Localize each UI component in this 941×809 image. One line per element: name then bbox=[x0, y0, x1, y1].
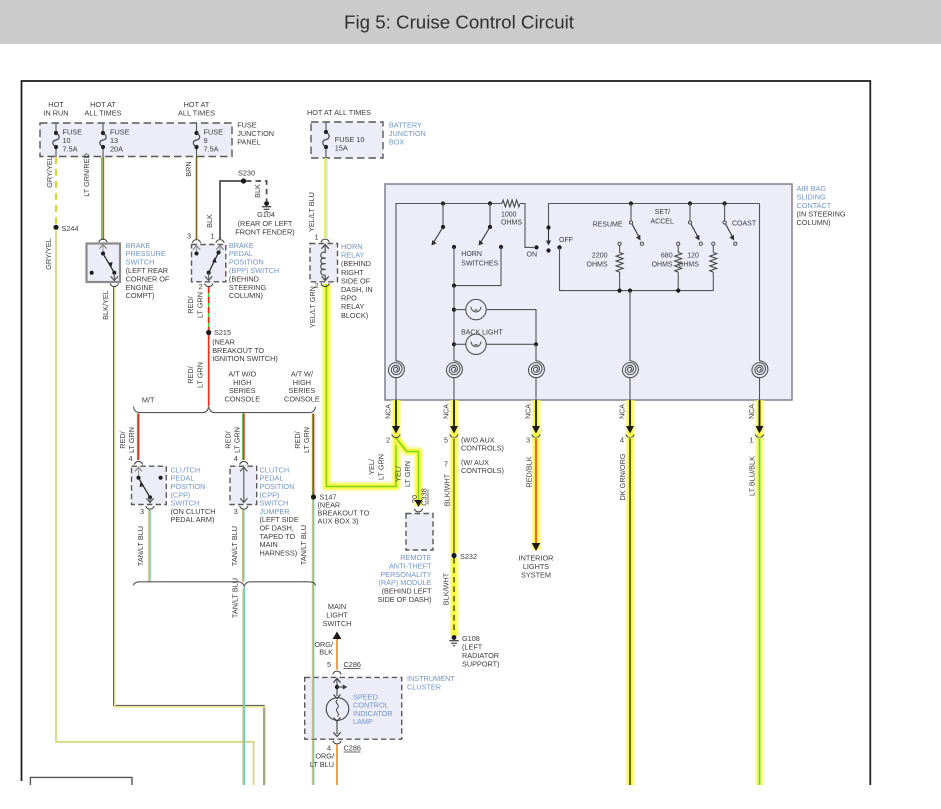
svg-text:TAN/LT BLU: TAN/LT BLU bbox=[299, 525, 308, 565]
svg-text:BRN: BRN bbox=[184, 161, 193, 176]
svg-text:LT GRN: LT GRN bbox=[196, 362, 205, 388]
svg-text:HORN: HORN bbox=[461, 251, 482, 258]
sliding contact coil 1 bbox=[388, 361, 404, 378]
svg-text:C338: C338 bbox=[420, 488, 429, 505]
svg-text:S232: S232 bbox=[460, 552, 477, 561]
svg-text:DK GRN/ORG: DK GRN/ORG bbox=[618, 453, 627, 500]
svg-text:RED/: RED/ bbox=[223, 430, 232, 448]
svg-text:SUPPORT): SUPPORT) bbox=[462, 660, 500, 669]
svg-text:RED/: RED/ bbox=[186, 365, 195, 383]
svg-text:CONSOLE: CONSOLE bbox=[224, 395, 260, 404]
horn switch 1 bbox=[441, 201, 445, 205]
svg-text:M/T: M/T bbox=[142, 396, 155, 405]
horn switch 2 bbox=[488, 201, 492, 205]
svg-text:20A: 20A bbox=[110, 144, 123, 153]
svg-text:1000: 1000 bbox=[501, 212, 517, 219]
svg-text:AUX BOX 3): AUX BOX 3) bbox=[318, 517, 359, 526]
wire TAN/LT BLU from CPP jumper to merge brace bbox=[242, 510, 244, 582]
splice S232 bbox=[451, 553, 456, 558]
splice S147 bbox=[311, 494, 316, 499]
svg-text:4: 4 bbox=[620, 436, 624, 445]
sliding contact coil 3 bbox=[528, 361, 544, 378]
wire BLK dashed from S230 to G104 bbox=[246, 181, 267, 201]
svg-text:TAN/LT BLU: TAN/LT BLU bbox=[136, 526, 145, 566]
wire RED/LT GRN dashed from BPP pin 2 to S215 bbox=[208, 287, 210, 330]
NCA wire at pin 2 bbox=[391, 400, 401, 437]
svg-text:LT GRN: LT GRN bbox=[377, 454, 386, 480]
resistor 2200 OHMS bbox=[618, 242, 621, 245]
wire TAN/LT BLU merged to bottom bbox=[242, 588, 244, 785]
resistor 1000 OHMS bbox=[502, 200, 520, 207]
resistor 680 OHMS bbox=[677, 242, 680, 245]
svg-text:S230: S230 bbox=[238, 169, 255, 178]
svg-text:ALL TIMES: ALL TIMES bbox=[178, 109, 215, 118]
svg-text:OHMS: OHMS bbox=[652, 262, 673, 269]
horn relay coil bbox=[324, 246, 326, 254]
svg-text:LAMP: LAMP bbox=[353, 717, 373, 726]
wire TAN/LT BLU below S147 bbox=[311, 500, 313, 786]
svg-text:OHMS: OHMS bbox=[678, 262, 699, 269]
RAP module box bbox=[406, 514, 433, 551]
svg-text:LT GRN: LT GRN bbox=[127, 427, 136, 453]
svg-text:C286: C286 bbox=[344, 744, 361, 753]
SET/ACCEL switch bbox=[688, 201, 692, 205]
wire GRY/YEL from S244 down and right to bottom bbox=[56, 230, 254, 786]
svg-text:IGNITION SWITCH): IGNITION SWITCH) bbox=[212, 354, 278, 363]
fuse 13 20A bbox=[101, 131, 105, 135]
NCA wire at pin 3 bbox=[531, 400, 541, 437]
svg-text:3: 3 bbox=[187, 232, 191, 241]
brake pressure switch box bbox=[99, 239, 107, 242]
wire LT BLU/BLK from pin 1 to bottom bbox=[755, 438, 765, 786]
svg-text:HARNESS): HARNESS) bbox=[260, 548, 298, 557]
bottom left box bbox=[30, 777, 132, 785]
wire RED/LT GRN from S215 to branch brace bbox=[208, 335, 210, 406]
svg-text:3: 3 bbox=[140, 507, 144, 516]
wire right bus to coil 5 bbox=[759, 204, 761, 362]
ON/OFF switch bbox=[546, 225, 550, 229]
air bag sliding contact box bbox=[385, 184, 792, 400]
svg-text:BLK/WHT: BLK/WHT bbox=[443, 473, 452, 506]
wire RED/LT GRN branch M/T bbox=[136, 414, 138, 461]
svg-text:120: 120 bbox=[687, 253, 699, 260]
svg-text:4: 4 bbox=[128, 454, 132, 463]
svg-text:TAN/LT BLU: TAN/LT BLU bbox=[231, 578, 240, 618]
svg-text:ON: ON bbox=[527, 252, 538, 259]
speed control indicator lamp bbox=[333, 678, 340, 682]
back light lamp 1 bbox=[454, 309, 466, 311]
RESUME switch bbox=[629, 201, 633, 205]
svg-text:2: 2 bbox=[386, 436, 390, 445]
svg-text:SWITCH: SWITCH bbox=[323, 619, 352, 628]
splice S215 bbox=[206, 330, 211, 335]
svg-text:3: 3 bbox=[234, 507, 238, 516]
svg-text:RED/: RED/ bbox=[118, 430, 127, 448]
svg-text:S244: S244 bbox=[62, 224, 79, 233]
svg-text:RED/BLK: RED/BLK bbox=[525, 456, 534, 487]
sliding contact coil 4 bbox=[622, 361, 638, 378]
svg-text:RESUME: RESUME bbox=[593, 222, 623, 229]
OFF contact to resistor bus bbox=[557, 245, 561, 249]
svg-text:7.5A: 7.5A bbox=[63, 144, 78, 153]
svg-text:BLOCK): BLOCK) bbox=[341, 311, 368, 320]
wire BLK/YEL from brake pressure switch down, right, to bottom bbox=[114, 287, 264, 785]
splice S230 bbox=[241, 178, 246, 183]
svg-text:NCA: NCA bbox=[620, 404, 627, 419]
svg-text:PANEL: PANEL bbox=[237, 138, 260, 147]
svg-text:COLUMN): COLUMN) bbox=[229, 291, 263, 300]
wire RED/LT GRN branch A/T w/o console bbox=[242, 414, 244, 461]
svg-text:1: 1 bbox=[210, 232, 214, 241]
svg-text:YEL/LT GRN: YEL/LT GRN bbox=[308, 286, 317, 328]
svg-text:1: 1 bbox=[314, 233, 318, 242]
BPP switch contacts bbox=[195, 252, 199, 256]
fuse junction panel box bbox=[40, 123, 232, 157]
svg-text:BLK: BLK bbox=[205, 214, 214, 228]
battery junction box bbox=[311, 122, 383, 158]
sliding contact coil 2 bbox=[446, 361, 462, 378]
wire RED/BLK from pin 3 to interior lights system bbox=[531, 438, 541, 551]
bus wire top-right inside sliding contact bbox=[549, 204, 760, 228]
wire LT GRN/RED from fuse 13 to brake pressure switch bbox=[101, 157, 103, 240]
title bar bbox=[0, 0, 941, 44]
wire ORG/BLK to instrument cluster bbox=[336, 639, 338, 670]
wire BLK/WHT from pin 5 to S232 bbox=[449, 438, 459, 554]
svg-text:BLK/YEL: BLK/YEL bbox=[101, 290, 110, 320]
svg-text:NCA: NCA bbox=[386, 404, 393, 419]
svg-text:YEL/LT BLU: YEL/LT BLU bbox=[307, 192, 316, 232]
merge brace for TAN/LT BLU wires bbox=[134, 582, 316, 587]
svg-text:NCA: NCA bbox=[444, 404, 451, 419]
svg-text:OHMS: OHMS bbox=[501, 220, 522, 227]
svg-text:ACCEL: ACCEL bbox=[651, 219, 674, 226]
wire lamp junction to coil 3 bbox=[535, 344, 537, 361]
wire YEL/LT GRN highlighted from horn relay pin 2 to air bag sliding contact pin 2 bbox=[326, 284, 396, 487]
svg-text:TAN/LT BLU: TAN/LT BLU bbox=[230, 526, 239, 566]
svg-text:LT GRN/RED: LT GRN/RED bbox=[82, 153, 91, 197]
wire bracket to lamps bbox=[453, 286, 455, 361]
resistor 120 OHMS bbox=[712, 242, 715, 245]
svg-text:BOX: BOX bbox=[389, 138, 405, 147]
svg-text:CONTROLS): CONTROLS) bbox=[461, 466, 504, 475]
svg-text:OHMS: OHMS bbox=[587, 262, 608, 269]
NCA wire at pin 5 bbox=[449, 400, 459, 437]
connector arc at RAP module pin 20 bbox=[415, 500, 423, 507]
svg-text:G104: G104 bbox=[257, 210, 275, 219]
sliding contact coil 5 bbox=[752, 361, 768, 378]
svg-text:IN RUN: IN RUN bbox=[43, 109, 68, 118]
svg-text:RED/: RED/ bbox=[186, 295, 195, 313]
svg-text:2200: 2200 bbox=[592, 253, 608, 260]
fuse 9 7.5A bbox=[194, 131, 198, 135]
svg-text:4: 4 bbox=[234, 454, 238, 463]
svg-text:HOT AT ALL TIMES: HOT AT ALL TIMES bbox=[307, 108, 371, 117]
COAST switch bbox=[723, 201, 727, 205]
wire GRY/YEL dashed from fuse 10 to S244 bbox=[55, 157, 57, 225]
wire fuse10 feed bbox=[55, 123, 57, 133]
svg-text:BLK: BLK bbox=[253, 184, 262, 198]
wire DK GRN/ORG from pin 4 to bottom bbox=[625, 438, 635, 786]
splice S244 bbox=[53, 225, 58, 230]
svg-text:COMPT): COMPT) bbox=[126, 291, 155, 300]
svg-text:LT GRN: LT GRN bbox=[403, 461, 412, 487]
NCA wire at pin 4 bbox=[625, 400, 635, 437]
wire BLK/WHT dashed from S232 to G108 bbox=[449, 558, 459, 636]
wire TAN/LT BLU crossing instrument cluster box bbox=[311, 677, 313, 739]
svg-text:COAST: COAST bbox=[732, 221, 757, 228]
svg-text:15A: 15A bbox=[335, 144, 348, 153]
wire BLK from BPP pin 1 up to S230 bbox=[220, 181, 244, 239]
wire RED/LT GRN branch A/T w console to S147 bbox=[311, 414, 313, 496]
svg-text:S215: S215 bbox=[214, 328, 231, 337]
wire YEL/LT BLU from battery fuse to horn relay pin 1 bbox=[324, 158, 326, 238]
svg-text:CLUSTER: CLUSTER bbox=[407, 683, 441, 692]
NCA wire at pin 1 bbox=[755, 400, 765, 437]
bus wire top-left inside sliding contact bbox=[396, 204, 502, 362]
svg-text:SYSTEM: SYSTEM bbox=[521, 571, 551, 580]
svg-text:GRY/YEL: GRY/YEL bbox=[45, 156, 54, 188]
back light lamp 2 bbox=[454, 343, 466, 345]
fuse 10 15A bbox=[325, 122, 327, 132]
svg-text:Fig 5: Cruise Control Circuit: Fig 5: Cruise Control Circuit bbox=[344, 13, 574, 33]
svg-text:COLUMN): COLUMN) bbox=[797, 218, 831, 227]
svg-text:LT GRN: LT GRN bbox=[196, 292, 205, 318]
svg-text:SIDE OF DASH): SIDE OF DASH) bbox=[378, 595, 432, 604]
svg-text:BLK/WHT: BLK/WHT bbox=[442, 572, 451, 605]
wire TAN/LT BLU from CPP switch to merge brace bbox=[148, 510, 150, 582]
svg-text:ALL TIMES: ALL TIMES bbox=[85, 109, 122, 118]
svg-text:1: 1 bbox=[749, 436, 753, 445]
svg-text:NCA: NCA bbox=[526, 404, 533, 419]
brake pressure switch contacts bbox=[101, 252, 105, 256]
svg-text:LT BLU/BLK: LT BLU/BLK bbox=[748, 456, 757, 496]
svg-text:SWITCHES: SWITCHES bbox=[461, 261, 498, 268]
svg-text:YEL/: YEL/ bbox=[367, 458, 376, 475]
svg-text:OFF: OFF bbox=[559, 237, 573, 244]
svg-text:FRONT FENDER): FRONT FENDER) bbox=[235, 228, 294, 237]
wire BRN from fuse 9 to BPP switch pin 3 bbox=[196, 157, 198, 239]
svg-text:5: 5 bbox=[444, 436, 448, 445]
svg-text:3: 3 bbox=[526, 436, 530, 445]
horn switches bracket bbox=[453, 247, 455, 286]
svg-text:YEL/: YEL/ bbox=[394, 465, 403, 482]
wire resistor to ON contact bbox=[520, 204, 534, 248]
svg-text:LT BLU: LT BLU bbox=[310, 760, 334, 769]
svg-text:CONSOLE: CONSOLE bbox=[284, 395, 320, 404]
svg-text:CONTROLS): CONTROLS) bbox=[461, 444, 504, 453]
svg-text:5: 5 bbox=[327, 660, 331, 669]
svg-text:7: 7 bbox=[444, 460, 448, 469]
svg-text:NCA: NCA bbox=[749, 404, 756, 419]
svg-text:SET/: SET/ bbox=[655, 209, 671, 216]
svg-text:C286: C286 bbox=[344, 660, 361, 669]
svg-text:PEDAL ARM): PEDAL ARM) bbox=[171, 515, 215, 524]
svg-text:RED/: RED/ bbox=[293, 430, 302, 448]
fuse 10 7.5A bbox=[54, 131, 58, 135]
main light switch arrow bbox=[333, 632, 342, 640]
svg-text:680: 680 bbox=[661, 253, 673, 260]
branch brace (M/T, A/T) bbox=[134, 407, 316, 413]
diagram border frame bbox=[22, 81, 871, 785]
ground G104 bbox=[264, 201, 269, 206]
wire YEL/LT GRN highlighted from pin 2 to RAP module bbox=[396, 438, 419, 506]
ground G108 bbox=[452, 635, 457, 640]
svg-text:7.5A: 7.5A bbox=[204, 144, 219, 153]
svg-text:GRY/YEL: GRY/YEL bbox=[44, 238, 53, 270]
svg-text:LT GRN: LT GRN bbox=[302, 427, 311, 453]
wire resistor bus to coil 4 bbox=[628, 289, 632, 293]
svg-text:2: 2 bbox=[198, 282, 202, 291]
wire ORG/LT BLU below instrument cluster bbox=[336, 745, 338, 786]
instrument cluster box bbox=[305, 677, 402, 739]
svg-text:LT GRN: LT GRN bbox=[232, 427, 241, 453]
svg-text:BLK: BLK bbox=[319, 648, 333, 657]
svg-text:BACK LIGHT: BACK LIGHT bbox=[461, 330, 503, 337]
